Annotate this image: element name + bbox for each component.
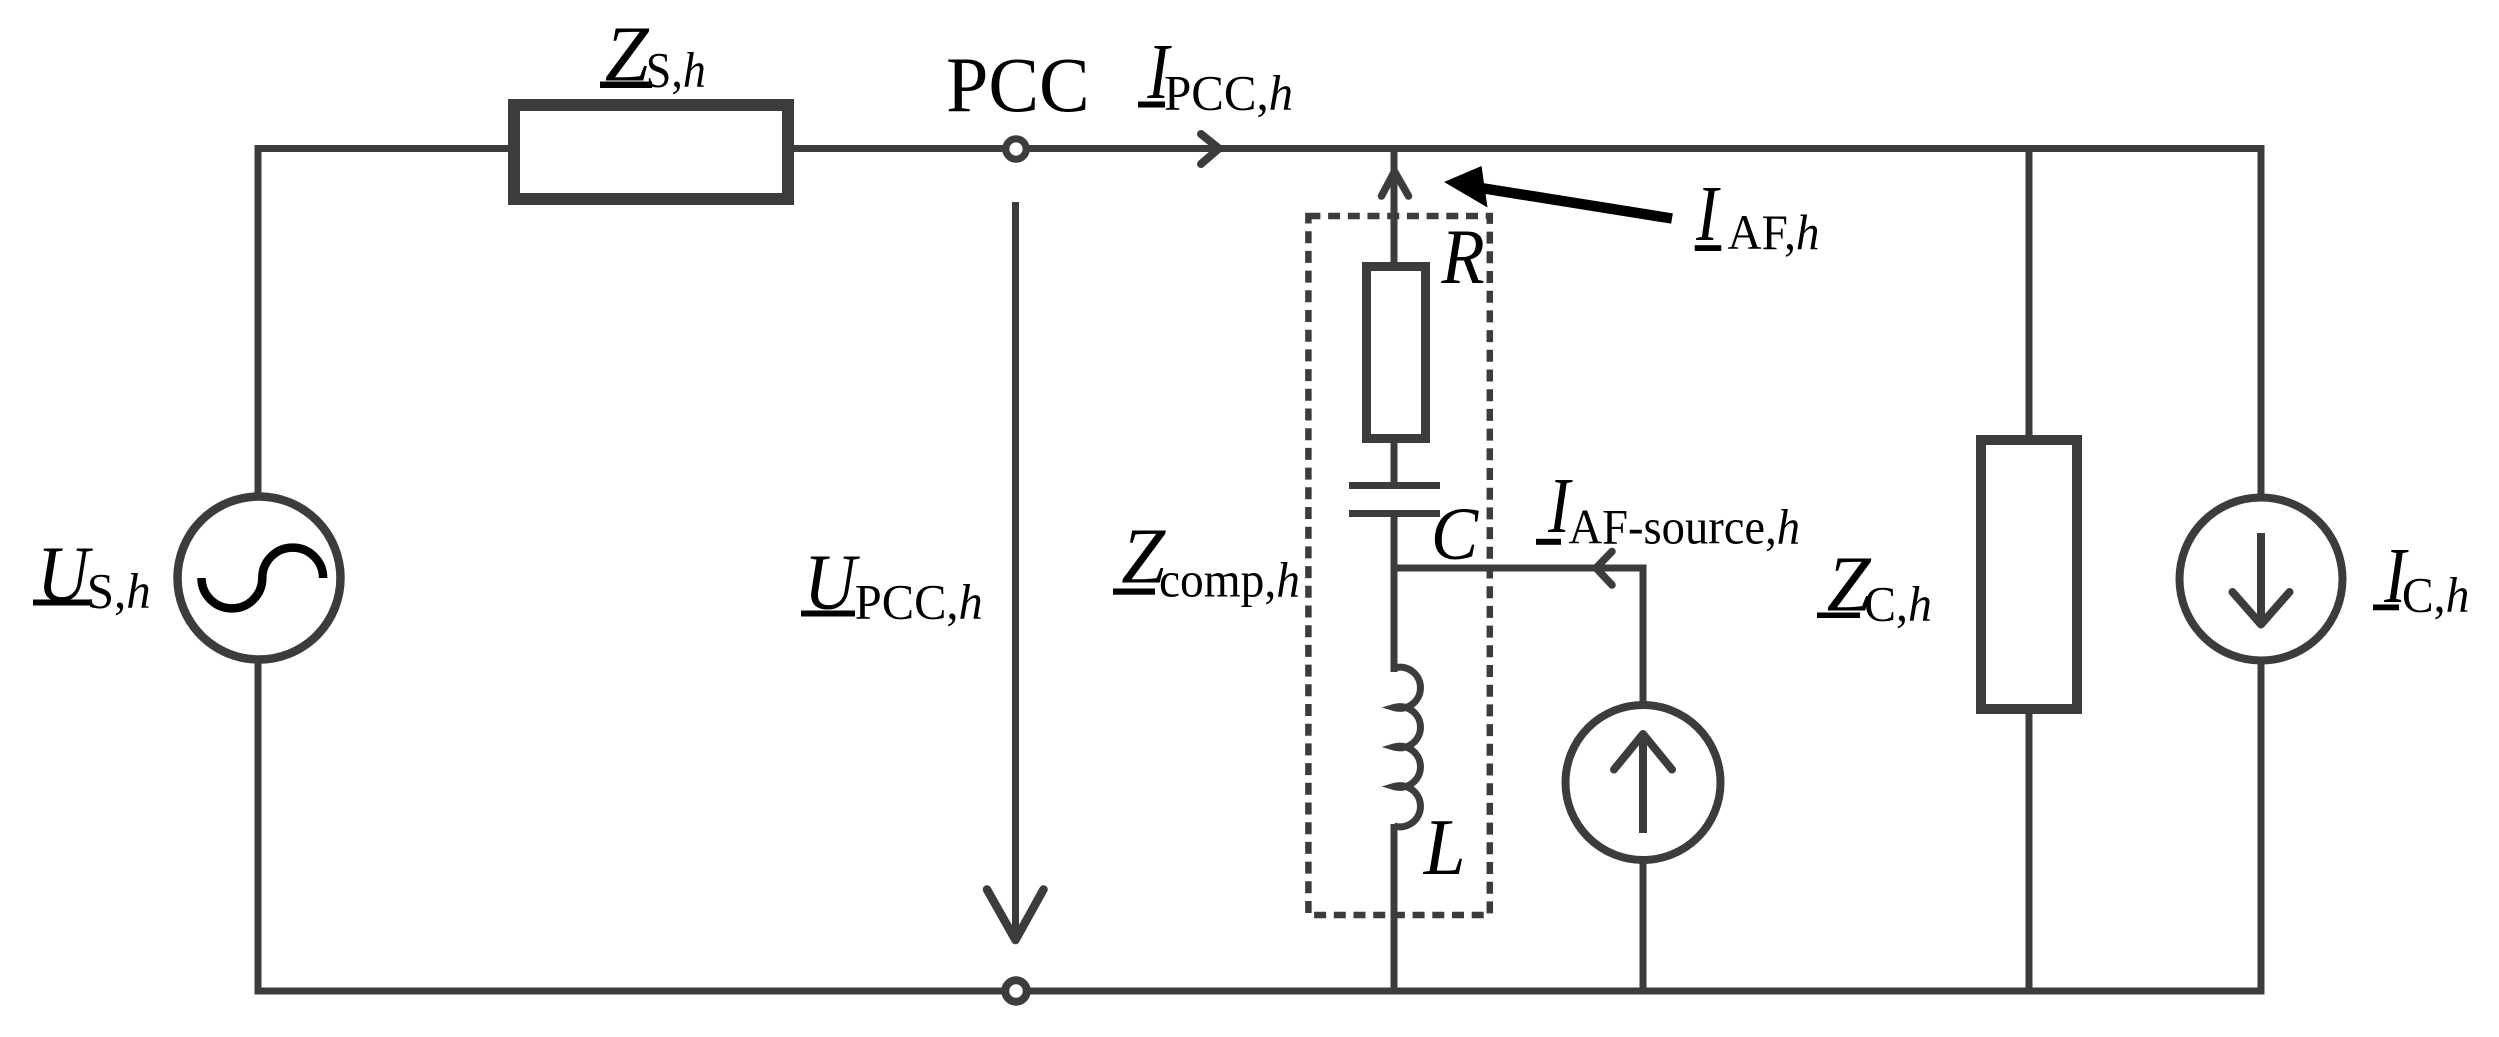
arrow I_PCC,h chevron on top wire bbox=[1201, 134, 1219, 164]
wire AF-source below circle bbox=[1640, 858, 1647, 991]
svg-text:C,h: C,h bbox=[1864, 577, 1932, 632]
svg-text:AF,h: AF,h bbox=[1728, 205, 1820, 260]
node PCC circle bbox=[1006, 139, 1026, 159]
up arrow inside AF source bbox=[1639, 737, 1647, 833]
inductor L coil arcs bbox=[1394, 667, 1420, 827]
black annotation arrowhead bbox=[1444, 166, 1488, 208]
wire inductor-to-bottom segment bbox=[1391, 824, 1398, 991]
svg-text:PCC,h: PCC,h bbox=[1164, 65, 1293, 120]
white gap between capacitor plates bbox=[1390, 490, 1398, 510]
black annotation arrow shaft (I_AF,h pointer) bbox=[1478, 188, 1672, 219]
label U_PCC,h bbox=[801, 539, 983, 629]
label I_PCC,h bbox=[1138, 29, 1293, 121]
svg-text:R: R bbox=[1440, 213, 1484, 300]
U_PCC arrowhead chevron bbox=[987, 890, 1044, 941]
U_PCC measurement arrow line bbox=[1012, 202, 1019, 936]
label Z_C,h bbox=[1817, 541, 1932, 631]
svg-text:L: L bbox=[1423, 804, 1466, 892]
wire resistor-to-capacitor segment bbox=[1391, 438, 1398, 489]
wire Z_C branch below box bbox=[2026, 705, 2033, 991]
impedance box Z_C,h bbox=[1981, 440, 2077, 709]
wire capacitor-to-inductor segment bbox=[1391, 510, 1398, 672]
capacitor C bottom plate bbox=[1349, 510, 1440, 517]
svg-text:PCC: PCC bbox=[946, 41, 1090, 128]
svg-text:S,h: S,h bbox=[646, 43, 706, 98]
svg-text:I: I bbox=[1695, 171, 1721, 258]
label I_C,h bbox=[2373, 533, 2469, 623]
wire Z_comp branch top segment bbox=[1391, 149, 1398, 271]
label Z_S,h bbox=[600, 11, 706, 98]
voltage source U_S circle bbox=[178, 497, 341, 660]
label I_AF,h bbox=[1695, 171, 1820, 260]
impedance box Z_S,h bbox=[514, 105, 788, 199]
svg-text:PCC,h: PCC,h bbox=[855, 575, 983, 630]
svg-text:comp,h: comp,h bbox=[1159, 552, 1300, 607]
svg-text:C: C bbox=[1431, 493, 1479, 576]
down arrow inside I_C bbox=[2257, 533, 2265, 619]
wire bottom loop: left vertical lower + bottom wire + right vertical lower bbox=[258, 655, 2261, 991]
label U_S,h bbox=[33, 531, 151, 618]
label I_AF-source,h bbox=[1536, 463, 1800, 555]
node bottom circle bbox=[1005, 980, 1027, 1002]
arrow up chevron on Z_comp branch (I_AF) bbox=[1382, 172, 1409, 197]
wire Z_C branch above box bbox=[2026, 149, 2033, 446]
resistor R box bbox=[1367, 267, 1426, 439]
wire top loop: left vertical + top wire + right vertical upper bbox=[258, 149, 2261, 500]
current source I_C circle bbox=[2180, 498, 2343, 661]
arrow left chevron on AF-source wire bbox=[1596, 552, 1612, 586]
wire AF-source horizontal + corner down bbox=[1394, 568, 1643, 705]
sine symbol inside U_S bbox=[202, 548, 324, 609]
svg-text:C,h: C,h bbox=[2402, 568, 2470, 623]
svg-text:S,h: S,h bbox=[87, 564, 151, 619]
capacitor C top plate bbox=[1349, 482, 1440, 489]
label Z_comp,h bbox=[1113, 513, 1300, 607]
svg-text:AF-source,h: AF-source,h bbox=[1569, 500, 1801, 555]
current source I_AF-source circle bbox=[1566, 705, 1721, 860]
dashed box Z_comp,h bbox=[1308, 216, 1489, 915]
